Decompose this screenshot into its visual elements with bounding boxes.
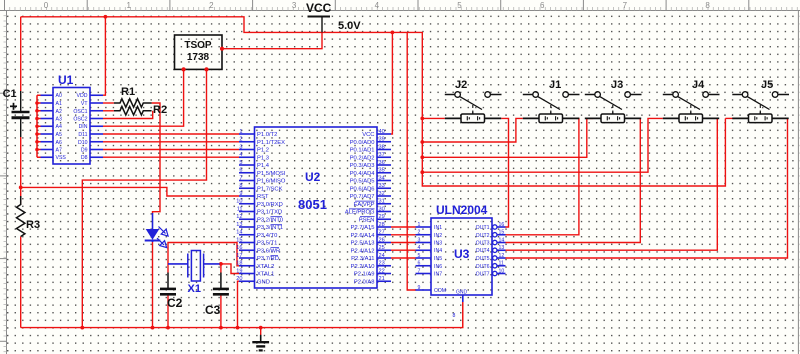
svg-text:OUT5: OUT5 — [476, 256, 490, 262]
relay J4 coil — [663, 112, 719, 123]
TSOP pin VCC — [220, 47, 224, 51]
wire R1 to LED anode — [152, 103, 160, 214]
svg-text:11: 11 — [237, 206, 243, 212]
svg-text:P1.2: P1.2 — [257, 148, 269, 154]
module TSOP1738 — [175, 35, 223, 69]
svg-text:A0: A0 — [56, 93, 62, 99]
svg-text:A3: A3 — [56, 117, 62, 123]
svg-text:1: 1 — [126, 1, 131, 10]
svg-text:R1: R1 — [121, 86, 135, 98]
svg-text:P1.4: P1.4 — [257, 163, 270, 169]
svg-text:7: 7 — [239, 175, 242, 181]
wire relay J3 coil feed — [422, 118, 593, 157]
svg-text:20: 20 — [236, 276, 242, 282]
svg-text:P1.1/T2EX: P1.1/T2EX — [257, 140, 285, 146]
top ruler band — [0, 0, 800, 11]
svg-text:ULN2004: ULN2004 — [436, 203, 488, 217]
svg-text:OSC1: OSC1 — [73, 109, 87, 115]
svg-text:J5: J5 — [761, 79, 773, 91]
svg-text:R2: R2 — [153, 104, 167, 116]
svg-text:2: 2 — [209, 1, 214, 10]
svg-text:P2.0/A8: P2.0/A8 — [354, 279, 375, 285]
IC U3 ULN2004 body — [431, 218, 492, 295]
junction rail TSOP gnd — [80, 326, 84, 330]
wire crystal left riser to XTAL2 — [168, 243, 239, 273]
svg-text:8: 8 — [705, 1, 710, 10]
relay J3 coil — [585, 112, 641, 123]
wire C2 bottom to rail — [167, 294, 169, 328]
svg-text:39: 39 — [379, 137, 385, 143]
svg-text:P0.2/AD2: P0.2/AD2 — [350, 155, 375, 161]
relay J4 contact switch — [663, 92, 720, 114]
svg-text:D11: D11 — [78, 132, 87, 138]
svg-text:ALE/PROG: ALE/PROG — [345, 210, 375, 216]
svg-text:TSOP: TSOP — [184, 40, 212, 51]
svg-text:22: 22 — [379, 268, 385, 274]
svg-text:C1: C1 — [3, 88, 17, 100]
relay J2 contact switch — [445, 92, 502, 114]
svg-text:5: 5 — [457, 1, 462, 10]
svg-text:P0.0/AD0: P0.0/AD0 — [350, 140, 375, 146]
junction crystal right / C3 — [219, 262, 223, 266]
svg-text:P2.1/A9: P2.1/A9 — [354, 272, 375, 278]
wire J1 coil to ULN OUT2 — [506, 118, 579, 234]
svg-text:5.0V: 5.0V — [338, 20, 361, 32]
capacitor C1 — [10, 91, 30, 137]
wire C1 negative lead — [20, 137, 22, 205]
svg-text:1: 1 — [418, 222, 421, 228]
svg-text:VCC: VCC — [362, 132, 374, 138]
svg-text:7: 7 — [418, 268, 421, 274]
U2 right pin stubs — [377, 134, 391, 281]
svg-text:40: 40 — [379, 129, 385, 135]
svg-text:IN7: IN7 — [434, 272, 442, 278]
svg-text:P0.3/AD3: P0.3/AD3 — [350, 163, 375, 169]
svg-text:P2.4/A12: P2.4/A12 — [351, 248, 375, 254]
svg-text:P2.5/A13: P2.5/A13 — [351, 241, 375, 247]
svg-text:1738: 1738 — [187, 52, 210, 63]
wire ULN GND pin to rail — [462, 302, 464, 328]
svg-text:IN1: IN1 — [434, 225, 442, 231]
svg-text:13: 13 — [236, 222, 242, 228]
svg-text:OSC2: OSC2 — [73, 117, 87, 123]
svg-text:COM: COM — [434, 288, 446, 294]
wire VCC trunk from C1+ to right — [21, 17, 726, 186]
wire J4 coil to ULN OUT4 — [506, 118, 718, 250]
svg-text:R3: R3 — [26, 219, 40, 231]
svg-text:OUT4: OUT4 — [476, 248, 490, 254]
IC U1 body — [53, 88, 90, 165]
svg-text:VDD: VDD — [77, 93, 88, 99]
junction rail C3 — [219, 326, 223, 330]
svg-text:IN5: IN5 — [434, 256, 442, 262]
svg-text:26: 26 — [379, 237, 385, 243]
wire U2 GND to rail — [238, 281, 240, 327]
wire U1 OSC1 to R2 — [103, 110, 114, 112]
svg-text:5: 5 — [239, 160, 242, 166]
svg-text:XTAL1: XTAL1 — [257, 272, 274, 278]
svg-text:11: 11 — [499, 261, 504, 267]
svg-text:X1: X1 — [188, 283, 201, 295]
wire U2 P2 to ULN IN2 — [391, 234, 416, 236]
svg-text:P0.1/AD1: P0.1/AD1 — [350, 148, 375, 154]
svg-text:0: 0 — [44, 1, 49, 10]
svg-text:4: 4 — [375, 1, 380, 10]
svg-text:OUT3: OUT3 — [476, 241, 490, 247]
svg-text:37: 37 — [379, 152, 385, 158]
wire TSOP gnd down-left to rail — [82, 69, 206, 327]
wire reset node to U2 RST — [21, 187, 239, 196]
svg-text:P1.0/T2: P1.0/T2 — [257, 132, 277, 138]
wire ground rail — [21, 302, 463, 328]
svg-text:13: 13 — [499, 245, 505, 251]
svg-text:P1.6/MISO: P1.6/MISO — [257, 179, 286, 185]
svg-text:19: 19 — [236, 268, 242, 274]
svg-text:34: 34 — [379, 175, 385, 181]
svg-text:DIN: DIN — [79, 124, 88, 130]
U3 pin name labels — [434, 225, 490, 296]
wire J3 coil to ULN OUT3 — [506, 118, 641, 242]
wire R3 bottom lead — [20, 237, 22, 328]
svg-text:3: 3 — [292, 1, 297, 10]
wire crystal right to XTAL1 — [220, 264, 239, 274]
wire TSOP out to U1 DIN — [103, 69, 184, 126]
svg-text:18: 18 — [236, 261, 242, 267]
svg-text:RST: RST — [257, 194, 269, 200]
svg-text:PSEN: PSEN — [359, 217, 375, 223]
U2 pin name labels — [257, 132, 375, 285]
U1 left pin stubs — [41, 95, 54, 157]
resistor R2 — [114, 107, 152, 116]
svg-text:J1: J1 — [549, 79, 561, 91]
svg-text:15: 15 — [499, 230, 505, 236]
wire C1 positive lead — [20, 17, 22, 91]
svg-text:5: 5 — [418, 253, 421, 259]
svg-text:IN6: IN6 — [434, 264, 442, 270]
svg-text:3: 3 — [239, 144, 242, 150]
wire VCC to TSOP supply — [222, 32, 322, 48]
wire U2 P2 to ULN IN1 — [391, 226, 416, 228]
wire relay J2 coil feed — [422, 117, 445, 119]
svg-text:P2.3/A11: P2.3/A11 — [351, 256, 374, 262]
ground symbol — [252, 335, 269, 351]
relay J1 contact switch — [523, 92, 580, 114]
svg-text:J2: J2 — [455, 79, 467, 91]
svg-text:9: 9 — [239, 191, 242, 197]
svg-text:VT: VT — [81, 101, 88, 107]
relay J5 coil — [732, 112, 788, 123]
svg-text:7: 7 — [623, 1, 628, 10]
wire R2 return to U1 OSC2 — [103, 111, 153, 119]
relay J5 contact switch — [732, 92, 789, 114]
svg-text:14: 14 — [499, 237, 505, 243]
svg-text:P0.6/AD6: P0.6/AD6 — [350, 186, 375, 192]
svg-text:25: 25 — [379, 245, 385, 251]
svg-text:16: 16 — [499, 222, 505, 228]
svg-text:8051: 8051 — [298, 197, 327, 212]
svg-text:EA/VPP: EA/VPP — [354, 202, 375, 208]
junction V2 row J1 — [420, 140, 424, 144]
svg-text:OUT2: OUT2 — [476, 233, 490, 239]
svg-text:P0.7/AD7: P0.7/AD7 — [350, 194, 375, 200]
junction rail ground symbol — [259, 326, 263, 330]
resistor R1 — [114, 99, 152, 107]
LED D1 — [145, 213, 168, 248]
wire C3 bottom to rail — [220, 294, 222, 328]
svg-text:OUT7: OUT7 — [476, 272, 490, 278]
relay J1 coil — [523, 112, 579, 123]
svg-text:A2: A2 — [56, 109, 62, 115]
wire U1 D9 to U2 pin3 — [103, 149, 239, 151]
svg-text:35: 35 — [379, 168, 385, 174]
svg-text:J4: J4 — [692, 79, 705, 91]
svg-text:P2.7/A15: P2.7/A15 — [351, 225, 375, 231]
svg-text:OUT6: OUT6 — [476, 264, 490, 270]
capacitor C3 — [213, 273, 229, 295]
svg-text:P3.4/T0: P3.4/T0 — [257, 233, 277, 239]
svg-text:A6: A6 — [56, 140, 62, 146]
wire LED cathode to rail — [152, 241, 154, 327]
junction rail C2 — [166, 326, 170, 330]
wire J2 coil to ULN OUT1 — [501, 118, 508, 227]
wire VCC to ULN COM (V1) — [407, 32, 415, 290]
wire C3 top lead red — [220, 264, 222, 273]
svg-text:2: 2 — [239, 137, 242, 143]
svg-text:32: 32 — [379, 191, 385, 197]
svg-text:P3.6/WR: P3.6/WR — [257, 248, 280, 254]
crystal X1 — [168, 251, 220, 282]
U3 pin numbers — [418, 222, 505, 319]
svg-text:IN2: IN2 — [434, 233, 442, 239]
svg-text:P3.2/INT0: P3.2/INT0 — [257, 217, 283, 223]
svg-text:10: 10 — [236, 199, 242, 205]
svg-text:23: 23 — [379, 261, 385, 267]
svg-text:10: 10 — [499, 268, 505, 274]
junction U2 VCC branch — [391, 31, 395, 35]
wire U1 address bus — [35, 95, 40, 157]
relay J2 coil — [445, 112, 501, 123]
svg-text:C3: C3 — [205, 303, 221, 317]
capacitor C2 — [160, 273, 176, 295]
svg-text:P3.1/TXD: P3.1/TXD — [257, 210, 282, 216]
junction V2 row J4 — [420, 170, 424, 174]
svg-text:2: 2 — [418, 230, 421, 236]
junction V2 row J2 — [420, 117, 424, 121]
svg-text:P1.3: P1.3 — [257, 155, 269, 161]
resistor R3 — [17, 196, 25, 237]
svg-text:21: 21 — [379, 276, 385, 282]
svg-text:P3.5/T1: P3.5/T1 — [257, 241, 277, 247]
wire U2 P2 to ULN IN4 — [391, 249, 416, 251]
svg-text:P1.5/MOSI: P1.5/MOSI — [257, 171, 286, 177]
svg-text:VCC: VCC — [306, 1, 332, 15]
wire U1 D11 to U2 pin1 — [103, 133, 239, 135]
TSOP pin OUT — [182, 67, 186, 71]
left ruler band — [0, 11, 7, 354]
svg-text:C2: C2 — [167, 296, 183, 310]
wire U2 P2 to ULN IN5 — [391, 257, 416, 259]
wire U1 VDD riser — [103, 17, 105, 95]
U3 input pin stubs — [416, 227, 432, 290]
IC U2 8051 body — [255, 127, 378, 288]
svg-text:38: 38 — [379, 144, 385, 150]
svg-text:27: 27 — [379, 230, 385, 236]
wire U2 P2 to ULN IN3 — [391, 242, 416, 244]
wire U1 D10 to U2 pin2 — [103, 141, 239, 143]
right sheet border — [797, 11, 799, 354]
svg-text:A7: A7 — [56, 148, 62, 154]
svg-text:P0.4/AD4: P0.4/AD4 — [350, 171, 376, 177]
svg-text:D10: D10 — [78, 140, 88, 146]
junction top wire / U1 VDD riser — [104, 15, 108, 19]
svg-text:6: 6 — [418, 261, 421, 267]
wire ground symbol stub — [260, 328, 262, 336]
svg-text:30: 30 — [379, 206, 385, 212]
svg-text:XTAL2: XTAL2 — [257, 264, 274, 270]
TSOP pin GND — [204, 67, 208, 71]
svg-text:14: 14 — [236, 230, 242, 236]
junction C1/R3/RST node — [19, 186, 23, 190]
svg-text:8: 8 — [453, 313, 456, 319]
svg-text:36: 36 — [379, 160, 385, 166]
svg-text:4: 4 — [239, 152, 242, 158]
svg-text:12: 12 — [236, 214, 242, 220]
svg-text:P0.5/AD5: P0.5/AD5 — [350, 179, 375, 185]
junction rail LED cathode — [151, 326, 155, 330]
svg-text:U2: U2 — [305, 170, 321, 184]
svg-text:16: 16 — [236, 245, 242, 251]
U1 pin name labels — [56, 93, 89, 161]
svg-text:31: 31 — [379, 199, 385, 205]
svg-text:U1: U1 — [58, 73, 74, 87]
svg-text:9: 9 — [418, 285, 421, 291]
junction rail U2 GND — [236, 326, 240, 330]
wire relay J4 coil feed — [422, 118, 663, 172]
svg-text:17: 17 — [236, 253, 242, 259]
svg-text:IN3: IN3 — [434, 241, 442, 247]
svg-text:29: 29 — [379, 214, 385, 220]
svg-text:28: 28 — [379, 222, 385, 228]
U2 left pin stubs — [239, 134, 255, 281]
U2 pin numbers — [236, 129, 384, 282]
wire relay J1 coil feed — [422, 118, 523, 142]
svg-text:OUT1: OUT1 — [476, 225, 490, 231]
svg-text:J3: J3 — [611, 79, 623, 91]
svg-text:24: 24 — [379, 253, 385, 259]
svg-text:33: 33 — [379, 183, 385, 189]
svg-text:P1.7/SCK: P1.7/SCK — [257, 186, 283, 192]
wire U1 VT to R1 — [103, 102, 114, 104]
svg-text:P3.7/RD: P3.7/RD — [257, 256, 279, 262]
wire J5 coil to ULN OUT5 — [506, 118, 788, 258]
svg-text:P2.6/A14: P2.6/A14 — [351, 233, 376, 239]
U1 right pin stubs — [90, 95, 103, 157]
svg-text:P3.0/RXD: P3.0/RXD — [257, 202, 283, 208]
svg-text:6: 6 — [239, 168, 242, 174]
wire U1 D8 to U2 pin4 — [103, 156, 239, 158]
U3 output pin stubs with bubbles — [493, 225, 506, 276]
svg-text:D8: D8 — [81, 155, 88, 161]
svg-text:1: 1 — [239, 129, 242, 135]
relay J3 contact switch — [585, 92, 642, 114]
wire VCC branch to U2 pin40 — [391, 32, 392, 134]
svg-text:12: 12 — [499, 253, 505, 259]
svg-text:IN4: IN4 — [434, 248, 442, 254]
svg-text:8: 8 — [239, 183, 242, 189]
svg-text:A1: A1 — [56, 101, 62, 107]
power symbol VCC — [308, 17, 331, 33]
svg-text:6: 6 — [540, 1, 545, 10]
svg-text:15: 15 — [236, 237, 242, 243]
svg-text:VSS: VSS — [56, 155, 67, 161]
svg-text:U3: U3 — [454, 247, 470, 261]
svg-text:D9: D9 — [81, 148, 88, 154]
U3 GND pin stub — [462, 295, 464, 302]
wire relay J5 coil feed — [725, 117, 734, 119]
svg-text:3: 3 — [418, 237, 421, 243]
svg-text:P3.3/INT1: P3.3/INT1 — [257, 225, 283, 231]
svg-text:A5: A5 — [56, 132, 62, 138]
junction V2 row J3 — [420, 155, 424, 159]
svg-text:A4: A4 — [56, 124, 62, 130]
svg-text:P2.2/A10: P2.2/A10 — [351, 264, 375, 270]
svg-text:4: 4 — [418, 245, 421, 251]
svg-text:GND: GND — [456, 290, 468, 296]
svg-text:GND: GND — [257, 279, 270, 285]
